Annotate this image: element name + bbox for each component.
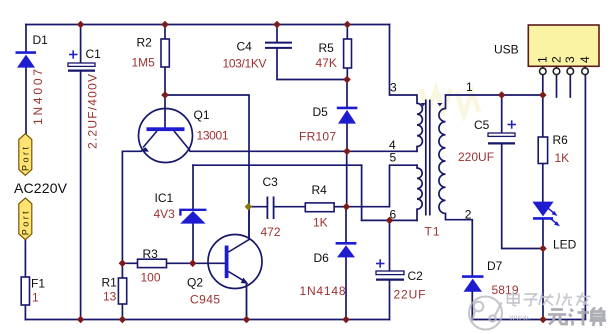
wire top +HV rail [26, 24, 390, 26]
value IC1 4V3 [154, 207, 176, 221]
junction Q1 base node [161, 91, 169, 99]
junction LED-C5 return [539, 245, 547, 253]
wire secondary pin2 to D7 [446, 214, 473, 277]
label Q1 [194, 108, 210, 122]
value Q1 13001 [197, 129, 229, 143]
transformer T1 polarity mark secondary [437, 103, 442, 106]
diode D1 [16, 53, 37, 68]
wire pin6 stub [416, 209, 418, 220]
value C2 22UF [394, 288, 426, 302]
wire R6 top lead [542, 95, 544, 137]
svg-text:C1: C1 [86, 47, 102, 61]
label R6 [553, 133, 569, 147]
fuse F1 body [21, 277, 29, 305]
wire D5 top lead [346, 80, 348, 108]
label R5 [319, 41, 335, 55]
transistor Q1 [139, 109, 193, 163]
value C4 103/1KV [223, 57, 267, 71]
wire pin6 horizontal [362, 219, 417, 221]
wire R2 bottom lead to Q1 base [164, 67, 166, 128]
value R3 100 [141, 271, 161, 285]
junction rail-C1 bottom [77, 316, 85, 324]
wire R6 to LED [542, 164, 544, 202]
wire C3 left lead [248, 206, 267, 208]
value C3 472 [261, 225, 281, 239]
transformer T1 primary winding [417, 103, 422, 146]
svg-text:C3: C3 [263, 175, 279, 189]
svg-text:1N4148: 1N4148 [300, 284, 346, 298]
junction R4-D6-pin5 [343, 203, 351, 211]
svg-text:C4: C4 [237, 40, 253, 54]
LED arrow 1 [548, 208, 555, 214]
wire zener node to pin6 branch [193, 164, 362, 166]
wire C5 top lead [501, 95, 503, 133]
junction rail-C1 [77, 21, 85, 29]
watermark yuanjisuan CJK [548, 308, 606, 327]
svg-text:3: 3 [390, 80, 397, 94]
svg-text:C945: C945 [190, 293, 220, 307]
USB pin number 4 [578, 56, 592, 63]
label D5 [313, 105, 329, 119]
svg-text:R2: R2 [137, 36, 153, 50]
USB pin ticks [543, 66, 585, 68]
junction pin1-C5 [498, 91, 506, 99]
wire D5 bottom lead to collector net [346, 124, 348, 151]
svg-text:100: 100 [141, 271, 161, 285]
label F1 [31, 277, 45, 291]
label T1 [425, 225, 440, 239]
wire LED cathode down to rail [542, 220, 544, 320]
wire R4 node to transformer pin5 [346, 165, 417, 207]
LED D-led symbol [532, 202, 560, 227]
wire primary winding lower stub to pin4 [416, 147, 418, 152]
svg-text:4V3: 4V3 [154, 207, 176, 221]
capacitor C1 plus sign [69, 50, 78, 58]
wire rail to pin3 [390, 25, 418, 104]
label Q2 [187, 276, 203, 290]
svg-text:22UF: 22UF [394, 288, 426, 302]
svg-text:1K: 1K [555, 151, 570, 165]
transformer T1 feedback winding [417, 168, 422, 209]
junction rail-R2 [161, 21, 169, 29]
wire Q1 emitter to R1 [122, 151, 141, 278]
capacitor C5 plates [488, 133, 515, 143]
value F1 1 [32, 291, 39, 305]
junction IC1-R3-Q2 [189, 260, 197, 268]
junction pin6-C2 [386, 217, 394, 225]
value Q2 C945 [190, 293, 220, 307]
junction rail-D6 bottom [342, 316, 350, 324]
value C1 2.2UF/400V (rotated) [86, 74, 100, 149]
resistor R4 body [305, 203, 334, 212]
value D6 1N4148 [300, 284, 346, 298]
svg-text:R5: R5 [319, 41, 335, 55]
value D5 FR107 [299, 130, 336, 144]
diode D5 [337, 108, 358, 124]
wire R3 left lead [122, 262, 137, 264]
junction collector pin4 [343, 148, 351, 156]
resistor R2 body [161, 39, 169, 67]
svg-text:D5: D5 [313, 105, 329, 119]
junction C3-Q1 base (olive) [245, 203, 253, 211]
resistor R6 body [538, 137, 547, 164]
svg-text:5: 5 [390, 151, 397, 165]
svg-text:1: 1 [32, 291, 39, 305]
svg-text:2: 2 [549, 56, 563, 63]
resistor R1 body [118, 278, 126, 304]
svg-text:220UF: 220UF [458, 150, 494, 164]
svg-text:R1: R1 [102, 276, 118, 290]
svg-text:1M5: 1M5 [132, 56, 156, 70]
junction snubber top [343, 76, 351, 84]
wire C5 bottom to LED cathode node [502, 145, 543, 249]
wire pin5 stub [416, 165, 418, 168]
label R3 [143, 247, 159, 261]
junction pin1-R6 [539, 91, 547, 99]
value D7 5819 [492, 283, 519, 297]
svg-text:Port: Port [20, 147, 30, 171]
wire Q1 collector to transformer pin4 [190, 150, 417, 152]
LED arrow 2 [551, 219, 558, 225]
svg-text:D7: D7 [487, 259, 503, 273]
diode D7 [462, 277, 484, 292]
capacitor C5 plus sign [508, 120, 517, 128]
svg-text:103/1KV: 103/1KV [223, 57, 267, 71]
svg-text:T1: T1 [425, 225, 440, 239]
svg-text:2: 2 [465, 208, 472, 222]
svg-text:FR107: FR107 [299, 130, 336, 144]
junction rail-C4 [273, 21, 281, 29]
watermark logo circle [469, 297, 502, 330]
transformer T1 secondary winding [439, 109, 446, 214]
wire C1 bottom lead [80, 72, 82, 320]
wire R2 top lead [164, 25, 166, 40]
label C1 [86, 47, 102, 61]
pin label 2 (transformer) [465, 208, 472, 222]
wire USB pin2 stub [556, 75, 558, 97]
wire secondary pin1 [446, 95, 543, 109]
transformer T1 polarity mark primary [421, 103, 426, 106]
junction rail-Q2 emitter [243, 316, 251, 324]
wire C4 bottom lead [277, 48, 347, 79]
junction rail-R5 [344, 21, 352, 29]
svg-text:R6: R6 [553, 133, 569, 147]
capacitor C2 plus sign [376, 259, 385, 267]
wire USB pin3 stub [569, 75, 571, 97]
label R4 [312, 183, 328, 197]
label LED [553, 238, 577, 252]
value D1 1N4007 (rotated) [31, 69, 45, 125]
USB pin circles [540, 68, 589, 75]
resistor R3 body [138, 259, 167, 267]
wire primary bottom rail [25, 319, 389, 321]
label C3 [263, 175, 279, 189]
value R1 13 [103, 290, 117, 304]
value C5 220UF [458, 150, 494, 164]
pin label 4 (transformer) [389, 138, 396, 152]
svg-text:3: 3 [563, 56, 577, 63]
svg-text:13001: 13001 [197, 129, 229, 143]
svg-text:1K: 1K [313, 216, 328, 230]
pin label 1 (transformer) [466, 80, 473, 94]
wire C2 bottom lead [389, 281, 391, 320]
USB connector J1 box [528, 25, 599, 66]
wire C3 to R4 [274, 206, 305, 208]
transistor Q2 [208, 207, 262, 320]
svg-text:IC1: IC1 [155, 191, 174, 205]
wire Q1 base node to Q2 collector [165, 95, 249, 239]
USB pin number 1 [536, 56, 550, 63]
label USB [494, 43, 519, 57]
capacitor C2 plates [376, 271, 404, 280]
watermark url text [510, 316, 531, 322]
port P2 (AC neutral) [19, 198, 32, 240]
net label AC220V [14, 180, 68, 196]
svg-text:Port: Port [20, 211, 30, 235]
wire R5 top lead [346, 25, 348, 40]
USB pin number 2 [549, 56, 563, 63]
svg-text:472: 472 [261, 225, 281, 239]
junction emitter-R3 [119, 260, 127, 268]
pin label 3 (transformer) [390, 80, 397, 94]
label R2 [137, 36, 153, 50]
svg-text:R3: R3 [143, 247, 159, 261]
svg-text:1: 1 [466, 80, 473, 94]
wire R1 bottom lead [121, 304, 123, 320]
wire D7 bottom to secondary rail [472, 75, 585, 320]
wire Port2 to F1 [24, 240, 26, 278]
svg-text:6: 6 [390, 208, 397, 222]
svg-text:USB: USB [494, 43, 519, 57]
junction secondary rail-LED [539, 316, 547, 324]
svg-text:R4: R4 [312, 183, 328, 197]
wire D6 bottom lead [345, 258, 347, 320]
watermark text elecfans CJK [508, 292, 591, 307]
svg-text:13: 13 [103, 290, 117, 304]
junction rail-R1 bottom [119, 316, 127, 324]
capacitor C1 plates [68, 63, 95, 71]
wire R5 bottom lead [346, 68, 348, 80]
svg-text:WWW.: WWW. [510, 316, 531, 322]
label C5 [474, 118, 490, 132]
wire IC1 top lead [192, 165, 194, 209]
zener IC1 [180, 210, 206, 224]
watermark faint yellow [421, 89, 479, 115]
wire pin6 branch down [361, 165, 363, 220]
svg-text:D6: D6 [314, 251, 330, 265]
wire collector node down to R4 node [346, 151, 348, 206]
wire D1 bottom to Port1 [25, 68, 27, 134]
svg-text:47K: 47K [316, 56, 337, 70]
capacitor C4 plates [265, 43, 292, 48]
diode D6 [336, 243, 357, 257]
svg-text:1: 1 [536, 56, 550, 63]
capacitor C3 plates [267, 197, 273, 220]
resistor R5 body [344, 39, 352, 68]
svg-text:C2: C2 [408, 269, 424, 283]
svg-text:C5: C5 [474, 118, 490, 132]
label D6 [314, 251, 330, 265]
port P1 (AC live) [19, 134, 32, 176]
value R2 1M5 [132, 56, 156, 70]
label C2 [408, 269, 424, 283]
wire IC1 bottom lead [192, 224, 194, 263]
pin label 6 (transformer) [390, 208, 397, 222]
label R1 [102, 276, 118, 290]
wire USB pin1 stub [542, 75, 544, 95]
value R6 1K [555, 151, 570, 165]
svg-text:D1: D1 [33, 33, 49, 47]
wire C4 top lead [276, 25, 278, 43]
svg-text:4: 4 [578, 56, 592, 63]
label D1 [33, 33, 49, 47]
value R4 1K [313, 216, 328, 230]
label D7 [487, 259, 503, 273]
svg-text:LED: LED [553, 238, 577, 252]
USB pin number 3 [563, 56, 577, 63]
svg-text:Q1: Q1 [194, 108, 210, 122]
wire D6 top lead [345, 207, 347, 243]
wire F1 bottom to ground rail [24, 305, 26, 320]
svg-text:Q2: Q2 [187, 276, 203, 290]
svg-text:F1: F1 [31, 277, 45, 291]
wire C2 top lead [389, 220, 391, 271]
transformer T1 core [426, 100, 430, 216]
wire C1 top lead [80, 25, 82, 64]
wire R3 right lead to Q2 base [167, 262, 225, 264]
pin label 5 (transformer) [390, 151, 397, 165]
svg-text:AC220V: AC220V [14, 180, 68, 196]
wire D1 top lead to rail [25, 25, 27, 53]
label IC1 [155, 191, 174, 205]
wire R4 right lead [334, 206, 346, 208]
value R5 47K [316, 56, 337, 70]
label C4 [237, 40, 253, 54]
